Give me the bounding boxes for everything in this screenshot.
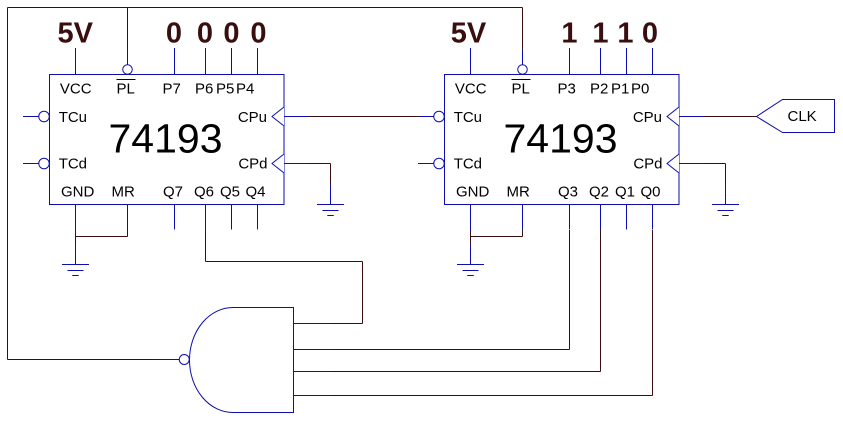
IC U2 pin P3 lead bbox=[569, 48, 571, 75]
svg-text:CPd: CPd bbox=[633, 156, 662, 173]
IC U2 74193 counter body bbox=[445, 75, 680, 205]
NAND gate U3 output bubble bbox=[179, 355, 189, 365]
IC U1 pin CPd clock arrow and lead bbox=[272, 154, 284, 173]
svg-text:0: 0 bbox=[223, 18, 239, 50]
IC U2 pin Q0 lead bbox=[652, 205, 654, 230]
svg-text:P1: P1 bbox=[611, 81, 629, 98]
svg-text:P5: P5 bbox=[216, 81, 234, 98]
svg-text:1: 1 bbox=[592, 18, 608, 50]
svg-text:P6: P6 bbox=[195, 81, 213, 98]
svg-text:PL: PL bbox=[512, 81, 530, 98]
IC U2 pin VCC lead bbox=[470, 48, 472, 75]
svg-text:VCC: VCC bbox=[455, 81, 487, 98]
IC U2 pin TCd lead and bubble bbox=[418, 163, 434, 165]
svg-text:PL: PL bbox=[117, 81, 135, 98]
svg-text:Q1: Q1 bbox=[615, 184, 635, 201]
svg-text:P7: P7 bbox=[163, 81, 181, 98]
svg-text:Q3: Q3 bbox=[558, 184, 578, 201]
IC U2 pin Q3 lead bbox=[569, 205, 571, 230]
svg-text:P2: P2 bbox=[590, 81, 608, 98]
IC U1 74193 counter body bbox=[50, 75, 285, 205]
IC U2 pin MR lead bbox=[522, 205, 524, 231]
svg-text:Q5: Q5 bbox=[220, 184, 240, 201]
IC U1 pin Q5 lead bbox=[231, 205, 233, 230]
ground symbol G1 (U1 GND) bbox=[75, 245, 77, 265]
svg-text:CLK: CLK bbox=[788, 108, 817, 125]
IC U2 pin PL lead (active-low, bubble) bbox=[522, 47, 524, 65]
svg-text:TCu: TCu bbox=[454, 109, 482, 126]
wire: NAND output feedback to PL pins (net LOAD) bbox=[8, 359, 160, 361]
svg-text:TCu: TCu bbox=[59, 109, 87, 126]
svg-text:Q7: Q7 bbox=[163, 184, 183, 201]
svg-text:5V: 5V bbox=[451, 18, 487, 50]
svg-text:CPu: CPu bbox=[633, 109, 662, 126]
svg-text:0: 0 bbox=[197, 18, 213, 50]
IC U1 pin GND lead bbox=[75, 205, 77, 232]
wire segment: down to U2 PL bbox=[522, 8, 524, 50]
svg-text:1: 1 bbox=[561, 18, 577, 50]
wire segment: branch down to U1 PL bbox=[127, 8, 129, 47]
wire: U2 MR to U2 GND net bbox=[522, 230, 524, 237]
svg-text:5V: 5V bbox=[57, 18, 93, 50]
IC U1 pin P6 lead bbox=[205, 48, 207, 75]
IC U2 pin TCu lead and bubble bbox=[418, 116, 434, 118]
svg-text:MR: MR bbox=[507, 184, 530, 201]
IC U2 pin CPd clock arrow and lead bbox=[667, 154, 679, 173]
IC U1 pin VCC lead bbox=[75, 48, 77, 75]
svg-text:Q4: Q4 bbox=[246, 184, 266, 201]
IC U1 pin P7 lead bbox=[174, 48, 176, 75]
IC U1 pin PL lead (active-low, bubble) bbox=[127, 47, 129, 65]
IC U1 pin P4 lead bbox=[257, 48, 259, 75]
wire: U1 MR to U1 GND net bbox=[127, 230, 129, 237]
svg-text:74193: 74193 bbox=[108, 116, 222, 162]
svg-text:Q0: Q0 bbox=[641, 184, 661, 201]
IC U2 pin Q2 lead bbox=[600, 205, 602, 231]
IC U2 pin P0 lead bbox=[652, 48, 654, 75]
svg-text:0: 0 bbox=[250, 18, 266, 50]
NAND gate U3 output lead bbox=[159, 359, 179, 361]
IC U2 pin Q1 lead bbox=[626, 205, 628, 230]
svg-text:TCd: TCd bbox=[454, 156, 482, 173]
IC U2 pin P1 lead bbox=[626, 48, 628, 75]
wire: U1 CPd to ground G2 bbox=[309, 163, 331, 165]
IC U1 pin CPu clock arrow and lead bbox=[272, 107, 284, 126]
svg-text:VCC: VCC bbox=[60, 81, 92, 98]
IC U1 pin Q6 lead bbox=[205, 205, 207, 231]
wire: U2 Q2 to NAND input 3 bbox=[600, 230, 602, 372]
wire: U1 Q6 to NAND input 1 bbox=[205, 230, 207, 262]
ground symbol G3 (U2 GND) bbox=[470, 245, 472, 265]
IC U1 pin TCd lead and bubble bbox=[23, 163, 39, 165]
svg-text:0: 0 bbox=[642, 18, 658, 50]
wire: U2 Q0 to NAND input 4 bbox=[652, 230, 654, 396]
svg-text:0: 0 bbox=[166, 18, 182, 50]
svg-text:P3: P3 bbox=[558, 81, 576, 98]
svg-text:GND: GND bbox=[456, 184, 490, 201]
IC U1 pin Q7 lead bbox=[174, 205, 176, 230]
wire segment: left vertical riser bbox=[7, 8, 9, 360]
IC U1 pin P5 lead bbox=[231, 48, 233, 75]
IC U1 pin MR lead bbox=[127, 205, 129, 231]
NAND gate U3 input leads bbox=[294, 323, 332, 325]
CLK input tag bbox=[757, 100, 835, 133]
wire: U2 CPu to CLK tag bbox=[704, 116, 757, 118]
IC U1 pin TCu lead and bubble bbox=[23, 116, 39, 118]
IC U2 pin CPu clock arrow and lead bbox=[667, 107, 679, 126]
wire segment: top horizontal run bbox=[8, 7, 523, 9]
ground symbol G2 (U1 CPd) bbox=[330, 185, 332, 205]
svg-text:CPu: CPu bbox=[238, 109, 267, 126]
wire: U2 Q3 to NAND input 2 bbox=[569, 230, 571, 350]
svg-text:CPd: CPd bbox=[238, 156, 267, 173]
IC U1 pin Q4 lead bbox=[257, 205, 259, 230]
svg-text:74193: 74193 bbox=[503, 116, 617, 162]
wire: U2 CPd to ground G4 bbox=[704, 163, 726, 165]
svg-text:Q2: Q2 bbox=[589, 184, 609, 201]
svg-text:GND: GND bbox=[61, 184, 95, 201]
svg-text:1: 1 bbox=[617, 18, 633, 50]
svg-text:Q6: Q6 bbox=[194, 184, 214, 201]
svg-text:TCd: TCd bbox=[59, 156, 87, 173]
NAND gate U3 body bbox=[190, 308, 294, 413]
wire: U1 CPu to U2 TCu (carry) bbox=[309, 116, 419, 118]
svg-text:P0: P0 bbox=[631, 81, 649, 98]
svg-text:MR: MR bbox=[112, 184, 135, 201]
IC U2 pin P2 lead bbox=[600, 48, 602, 75]
IC U2 pin GND lead bbox=[470, 205, 472, 232]
svg-text:P4: P4 bbox=[236, 81, 254, 98]
ground symbol G4 (U2 CPd) bbox=[725, 185, 727, 205]
